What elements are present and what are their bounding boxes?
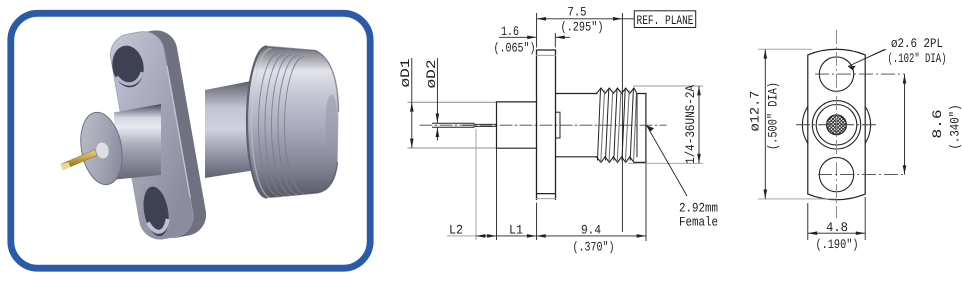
ref plane line xyxy=(621,13,623,232)
mounting hole top xyxy=(819,57,853,91)
phiD1 dim line xyxy=(411,58,413,148)
svg-text:9.4: 9.4 xyxy=(581,223,601,238)
3d plate edge highlight xyxy=(167,66,190,198)
3d pin tip xyxy=(61,162,71,170)
3d neck cylinder xyxy=(205,80,256,178)
front barrel xyxy=(556,94,597,157)
svg-text:(.370″): (.370″) xyxy=(573,240,615,255)
svg-text:8.6: 8.6 xyxy=(930,110,945,139)
thread runout edge xyxy=(636,94,638,157)
phi12.7 ext top xyxy=(758,48,812,50)
phiD2 dim line xyxy=(436,58,438,141)
svg-text:4.8: 4.8 xyxy=(826,220,848,235)
svg-text:1.6: 1.6 xyxy=(501,24,519,39)
thread ext top xyxy=(633,85,703,87)
svg-text:ø12.7: ø12.7 xyxy=(748,91,763,132)
3d barrel end cap xyxy=(75,109,127,188)
top hole centerline xyxy=(815,73,905,75)
thread ext bottom xyxy=(628,162,703,164)
dim 1.6 left tail xyxy=(499,36,537,38)
3d plate side face xyxy=(120,27,209,241)
dielectric bead step xyxy=(556,112,561,138)
rear barrel (variable L2, thin lines) xyxy=(408,102,497,148)
thread bottom zigzag xyxy=(597,157,634,163)
thread dim line xyxy=(698,86,700,163)
FRONT VIEW xyxy=(796,30,906,218)
3d nut thread grooves xyxy=(259,54,279,196)
body bulge arcs xyxy=(802,106,870,143)
svg-text:(.295″): (.295″) xyxy=(561,20,604,35)
vertical centerline xyxy=(836,30,838,218)
phi12.7 ext bottom xyxy=(758,198,836,200)
center pin xyxy=(433,123,475,127)
hatched center contact xyxy=(827,115,847,135)
ext line 1.6 right xyxy=(554,33,556,48)
3d nut end bore xyxy=(326,95,338,151)
dim 1.6 arrows xyxy=(527,36,565,40)
mounting hole bottom xyxy=(819,157,853,191)
3d nut bottom edge shade xyxy=(267,162,338,198)
3d barrel body xyxy=(114,104,161,180)
3d nut body xyxy=(247,47,339,198)
ext line flange left xyxy=(536,13,538,240)
SIDE VIEW xyxy=(408,50,666,199)
dim 4.8 line xyxy=(808,232,865,234)
dim 1.6 right tail xyxy=(555,36,570,38)
leader phi2.6 xyxy=(848,50,886,67)
3d flange plate xyxy=(107,26,209,243)
horizontal centerline xyxy=(796,124,878,126)
svg-text:øD2: øD2 xyxy=(424,60,439,89)
3d cap dielectric hole xyxy=(95,142,110,160)
bottom dim line grey part xyxy=(447,235,476,237)
svg-text:2.92mm: 2.92mm xyxy=(679,201,718,216)
svg-text:ø2.6 2PL: ø2.6 2PL xyxy=(891,36,943,51)
thread flank lines xyxy=(598,89,637,162)
bottom dim line xyxy=(476,235,646,237)
3d nut left rim edge xyxy=(247,47,267,198)
3d nut top edge shade xyxy=(267,47,339,113)
svg-text:L2: L2 xyxy=(449,223,463,238)
mid body section xyxy=(497,102,537,148)
svg-text:1/4-36UNS-2A: 1/4-36UNS-2A xyxy=(683,85,698,164)
leader 2.92mm xyxy=(647,125,687,196)
svg-text:7.5: 7.5 xyxy=(568,5,587,20)
inner ring circle xyxy=(816,105,857,146)
ref plane box xyxy=(622,18,634,20)
3d flange hole bottom xyxy=(140,185,172,238)
3d nut rim highlight xyxy=(252,49,272,199)
flange side profile xyxy=(537,50,556,199)
phi12.7 dim line xyxy=(764,49,766,199)
svg-text:Female: Female xyxy=(679,215,718,230)
outer conductor circle xyxy=(812,101,860,149)
bottom dim arrows xyxy=(476,234,646,238)
SIDE VIEW DIMENSIONS xyxy=(398,5,718,255)
svg-text:(.065″): (.065″) xyxy=(494,41,536,56)
FRONT VIEW DIMENSIONS xyxy=(748,36,962,252)
thread top zigzag xyxy=(597,88,638,94)
centerline xyxy=(420,124,666,126)
3d gold pin xyxy=(61,150,97,170)
dim 7.5 arrows xyxy=(537,17,623,21)
svg-text:(.500″ DIA): (.500″ DIA) xyxy=(766,82,781,150)
svg-text:(.102″ DIA): (.102″ DIA) xyxy=(888,51,947,66)
dim 7.5 line xyxy=(537,18,623,20)
flange chamfer lines xyxy=(537,55,556,198)
L1 ext line xyxy=(496,148,498,240)
dim 4.8 ext lines xyxy=(808,197,865,240)
dim 8.6 line xyxy=(904,74,906,175)
svg-text:(.340″): (.340″) xyxy=(948,105,962,150)
ext line front face xyxy=(645,162,647,241)
svg-text:øD1: øD1 xyxy=(398,58,413,87)
blue frame xyxy=(11,13,370,268)
svg-text:(.190″): (.190″) xyxy=(816,237,859,252)
svg-text:REF. PLANE: REF. PLANE xyxy=(637,13,694,28)
front cap outline xyxy=(634,94,646,163)
3d connector render xyxy=(61,26,339,243)
L2 ext line xyxy=(475,129,477,240)
3d plate front face xyxy=(107,28,196,242)
bottom hole centerline xyxy=(818,174,906,176)
svg-text:L1: L1 xyxy=(509,223,523,238)
3d flange hole top xyxy=(109,43,147,90)
flange outline front xyxy=(808,49,865,200)
